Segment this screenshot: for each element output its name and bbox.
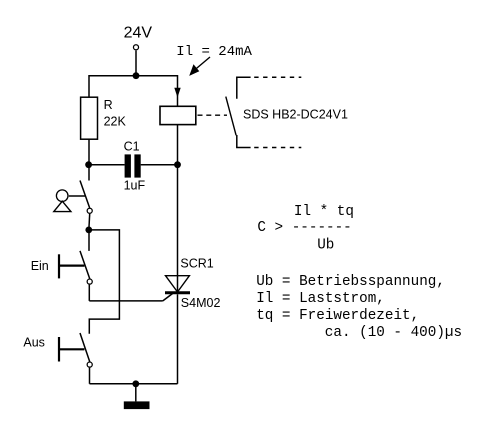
junction below S1 bbox=[85, 227, 92, 234]
pushbutton Ein actuator bbox=[58, 254, 60, 278]
dotted line top bbox=[254, 76, 301, 78]
wire C1 junction down to SCR anode bbox=[177, 165, 179, 293]
svg-text:SCR1: SCR1 bbox=[180, 257, 213, 271]
wire resistor to cap junction bbox=[88, 139, 90, 165]
wire SCR cathode down bbox=[177, 294, 179, 384]
svg-text:22K: 22K bbox=[104, 115, 127, 129]
wire relay coil to C1 junction bbox=[177, 125, 179, 165]
svg-text:Ub: Ub bbox=[317, 237, 334, 253]
resistor R bbox=[81, 97, 98, 139]
switch S1 blade bbox=[80, 181, 90, 209]
svg-text:SDS HB2-DC24V1: SDS HB2-DC24V1 bbox=[243, 107, 348, 121]
wire C1 right plate to right branch bbox=[141, 164, 178, 166]
switch S1 contact bbox=[87, 208, 92, 213]
pushbutton Ein contact bbox=[87, 279, 92, 284]
actuator link of S1 bbox=[69, 195, 85, 197]
wire top rail bbox=[89, 75, 178, 77]
svg-text:Il * tq: Il * tq bbox=[294, 204, 354, 220]
actuator triangle of S1 bbox=[54, 201, 71, 211]
junction left of C1 bbox=[85, 161, 92, 168]
svg-text:Il = Laststrom,: Il = Laststrom, bbox=[256, 291, 385, 307]
ground bbox=[124, 401, 150, 409]
svg-text:Il = 24mA: Il = 24mA bbox=[176, 44, 252, 60]
svg-text:tq = Freiwerdezeit,: tq = Freiwerdezeit, bbox=[256, 308, 419, 324]
junction bottom rail bbox=[132, 380, 139, 387]
pushbutton Aus contact bbox=[87, 362, 92, 367]
wire cap junction down to switch S1 bbox=[88, 165, 90, 181]
relay contact blade bbox=[226, 97, 236, 136]
thyristor SCR1 bbox=[166, 276, 190, 292]
dotted line bottom bbox=[254, 147, 301, 149]
relay contact bottom bracket bbox=[237, 135, 251, 148]
pushbutton Aus blade bbox=[80, 333, 90, 362]
wire bypass right-down-left around Ein bbox=[89, 230, 120, 334]
svg-text:C1: C1 bbox=[124, 139, 140, 153]
dashed mechanical link relay coil to contact bbox=[198, 114, 228, 116]
pushbutton Aus actuator bbox=[58, 337, 60, 362]
wire Ein contact down bbox=[88, 285, 90, 301]
junction at top rail bbox=[133, 72, 140, 79]
terminal 24V bbox=[133, 45, 138, 50]
svg-text:Aus: Aus bbox=[23, 335, 45, 349]
relay coil K1 bbox=[160, 106, 196, 124]
wire from 24V terminal down bbox=[135, 51, 137, 76]
svg-text:S4M02: S4M02 bbox=[181, 296, 221, 310]
wire left branch down to resistor bbox=[88, 75, 90, 97]
wire ground stem bbox=[135, 384, 137, 402]
svg-text:1uF: 1uF bbox=[124, 178, 146, 192]
junction right of C1 bbox=[174, 161, 181, 168]
svg-text:24V: 24V bbox=[124, 25, 153, 42]
svg-text:C > -------: C > ------- bbox=[257, 220, 351, 236]
svg-text:R: R bbox=[104, 98, 113, 112]
wire gate slant to SCR bbox=[163, 294, 173, 301]
wire S1 contact to junction bbox=[88, 214, 91, 227]
wire junction down to Ein switch bbox=[88, 230, 90, 251]
actuator circle of S1 bbox=[56, 190, 68, 202]
wire gate horizontal bbox=[89, 300, 163, 302]
capacitor C1 bbox=[125, 154, 131, 177]
svg-text:Ein: Ein bbox=[31, 259, 49, 273]
arrow from label to wire bbox=[194, 57, 210, 71]
current direction arrow on wire bbox=[174, 88, 180, 98]
wire bottom rail bbox=[90, 383, 178, 385]
pushbutton Ein blade bbox=[80, 251, 90, 279]
svg-text:Ub = Betriebsspannung,: Ub = Betriebsspannung, bbox=[256, 274, 445, 290]
relay contact top bracket bbox=[237, 77, 251, 99]
svg-text:ca. (10 - 400)µs: ca. (10 - 400)µs bbox=[325, 325, 462, 341]
wire right branch from top rail to relay coil bbox=[177, 75, 179, 106]
wire junction to C1 left plate bbox=[89, 164, 125, 166]
wire Aus contact down bbox=[89, 368, 91, 384]
